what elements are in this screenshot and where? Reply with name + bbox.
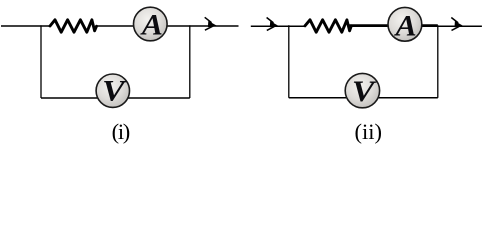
wire: circuit (i) top conductor right of resistor	[96, 25, 239, 27]
voltmeter V (i)	[96, 74, 129, 107]
wire: circuit (ii) top conductor left of resistor	[251, 25, 306, 27]
resistor (i) zigzag	[50, 20, 97, 32]
wire: circuit (i) left branch vertical	[40, 25, 42, 98]
resistor (ii) zigzag	[305, 20, 351, 32]
svg-text:A: A	[394, 9, 417, 42]
svg-text:(i): (i)	[112, 119, 130, 144]
wire: circuit (ii) bold segment resistor to right junction	[350, 24, 438, 26]
arrow on circuit (ii) output wire	[451, 18, 463, 31]
ammeter A (ii)	[388, 7, 422, 42]
wire: circuit (ii) bottom conductor	[289, 97, 438, 99]
wire: circuit (ii) left branch vertical	[288, 25, 290, 98]
svg-text:A: A	[140, 8, 163, 41]
wire: circuit (i) bottom conductor	[41, 97, 190, 99]
voltmeter V (ii)	[345, 73, 379, 107]
arrow on circuit (ii) input wire	[267, 18, 279, 31]
svg-text:V: V	[352, 75, 378, 108]
wire: circuit (ii) right branch vertical	[437, 25, 439, 98]
wire: circuit (ii) top conductor right of resistor	[351, 25, 482, 27]
svg-text:V: V	[102, 74, 128, 107]
wire: circuit (i) right branch vertical	[189, 25, 191, 98]
arrow on circuit (i) output wire	[205, 17, 217, 30]
wire: circuit (i) top conductor left of resistor	[1, 25, 51, 27]
svg-text:(ii): (ii)	[355, 119, 383, 144]
ammeter A (i)	[134, 7, 168, 41]
